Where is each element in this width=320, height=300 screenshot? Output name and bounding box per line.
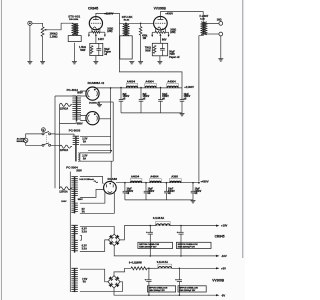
electrolytic C12 22000uF [175,268,182,295]
capacitor C8 10uF [191,183,196,200]
svg-text:oil: oil [162,99,165,101]
svg-text:RCA83: RCA83 [108,177,118,181]
filament rail A [80,88,111,153]
ground (STU-5K box) [129,62,134,64]
capacitor 50uF 700V (VV30B bias) [160,43,165,56]
svg-text:(2W): (2W) [170,31,175,34]
-10V rail [114,246,216,256]
wire hum pot wiper down (VV30B) [159,35,161,43]
svg-text:CR845: CR845 [215,234,225,238]
hum balance pot CR845 [92,31,100,33]
svg-text:5A: 5A [83,281,86,284]
wire jack to pot [32,23,43,27]
transformer STU-5K [123,23,129,35]
wire grid resistor to ground [140,35,142,61]
primary side rail (PC-3004) [69,172,71,293]
filament rail B [80,102,113,161]
page right border [242,0,244,258]
ground (VV30B bias) [157,62,162,64]
transformer PC-3004 HV secondary 350V [75,177,78,196]
chain2 cap tap dots [124,182,194,184]
arrow +10V [216,224,228,228]
wires STU-5K windings to box [125,34,126,37]
heater winding 6.3V no.1 [75,225,78,233]
grid resistor R2 470k [139,23,142,35]
svg-text:+5V: +5V [221,266,226,270]
label PC-3004 350V [66,166,82,173]
resistor 750ohm 50W [153,45,156,53]
wire 850V secondary top to rectifier [80,91,86,96]
output terminal 2 [219,32,223,36]
svg-text:-10V: -10V [221,254,227,258]
heater transformer core [73,225,76,292]
wiper arrow of VR1 [44,29,49,31]
svg-text:oil: oil [195,193,198,195]
capacitor C2 8uF [139,88,144,113]
AC plug P1 [24,138,28,142]
svg-text:A4004: A4004 [127,79,136,83]
svg-text:50W: 50W [80,49,86,52]
svg-text:850V: 850V [77,92,83,95]
rectifier tube RCA866A V1 [86,87,99,100]
wire HV sec bottom to RCA83 [80,189,104,197]
label STU-5K [122,15,134,21]
label 7.5V 5A [82,278,87,284]
svg-text:141V: 141V [98,37,104,41]
electrolytic C9 22000uF [146,226,153,256]
svg-text:125V2A: 125V2A [60,107,69,110]
svg-text:5A: 5A [83,157,86,160]
junction dot (CT line) [110,150,112,152]
wire bias network to ground [95,56,97,62]
choke L6 A395 [170,179,182,183]
svg-text:PC-5003: PC-5003 [69,128,81,132]
svg-text:350V: 350V [78,199,84,201]
capacitor C4 10uF [180,88,185,113]
svg-text:100-100k: 100-100k [69,19,79,21]
arrow -10V [216,254,227,258]
junction dots heater2 [148,268,180,297]
ground (pot) [40,62,45,64]
label 6.3V 3.5A (w2) [82,245,87,251]
junction dot (rail A top) [110,87,112,89]
svg-text:+1100V: +1100V [184,85,194,89]
label 1.5k 50W [79,46,86,52]
junction dot (STU-5K primary top) [125,23,127,25]
capacitor C5 10uF [123,183,128,200]
chain2 ground rail [125,199,193,201]
ground (STU-001 box) [72,62,77,64]
wire PC-3012 primary bottom return [60,121,77,124]
wiper arrow CR845 [95,33,97,36]
label 100ohm 2W (VV30B) [170,28,176,34]
svg-text:350V: 350V [76,169,82,172]
wire +1100V feed (long) [119,23,182,87]
fuse F3 [60,187,73,190]
wire hum pot wiper down [95,35,97,44]
page left border [0,0,2,300]
svg-text:0-B DC250mA: 0-B DC250mA [79,178,94,181]
wire filament CT to RCA83 [88,151,111,182]
filament supply stub left (to +5V) [151,32,155,37]
label 5V 3A [82,208,85,214]
bridge rectifier B2 [108,276,120,288]
svg-text:VV300B: VV300B [154,7,167,11]
svg-text:+1100V: +1100V [104,11,113,15]
choke L8 0.1H3.5A [158,264,172,268]
tiny fuse between rectifiers [97,102,102,107]
label C4 10uF 1500V oil [184,94,191,101]
svg-text:oil: oil [104,53,107,56]
choke L7 0.1H3.5A [156,221,171,225]
wire jack to ground [29,25,31,61]
AC rail right [51,105,60,189]
wire 5V winding top to bridge2 [80,269,108,282]
wire 5V sec to RCA83 filament [80,192,114,213]
wire secondary top to terminal [205,22,219,23]
svg-text:5A: 5A [83,140,86,143]
svg-text:3.5A: 3.5A [82,247,87,250]
wire w1 top to bridge1 [80,226,114,234]
filament supply stub left (to +10V) [88,32,92,37]
-5V rail [114,288,217,295]
+10V rail [170,225,217,227]
plate wire CR845 to +1100V rail [96,13,120,23]
plate wire VV30B to F-2007 [160,12,203,22]
svg-text:A4004: A4004 [145,79,154,83]
box under STU-001 [68,36,81,42]
svg-text:Paper oil: Paper oil [169,56,179,59]
svg-text:(2W): (2W) [107,30,112,33]
bridge rectifier B1 [108,234,120,246]
svg-text:STU-5K: STU-5K [122,15,134,19]
label C2 8uF 1500V oil [143,94,150,101]
svg-text:oil: oil [143,99,146,101]
wire V1 filament stub [98,101,113,103]
label C11 NIPPON CHEMI-CON [147,286,175,292]
svg-text:oil: oil [184,99,187,101]
label C7 10uF 1000V oil [168,189,175,196]
svg-text:0.1H3.5A: 0.1H3.5A [153,216,164,220]
label 6.3V 3.5A (w1) [82,228,87,234]
wire rail to PC-3012 primary top [55,95,76,97]
label 100ohm 2W (CR845) [107,28,113,34]
label 2.5V 5A (sec1) [82,138,87,144]
wire wiper to STU-001 [49,23,74,30]
capacitor C1 8uF [119,88,124,113]
wire terminal 2 to ground [220,36,222,59]
transformer PC-3004 primary [71,176,75,213]
svg-text:+10V: +10V [221,224,228,228]
wire secondary bottom to terminal [205,33,219,35]
wire plug to switch bottom [26,143,42,146]
label 50uF 700V Paper oil [169,51,179,59]
svg-text:0~0.2Ω60W: 0~0.2Ω60W [129,262,143,265]
output transformer F-2007 [201,22,207,35]
output terminal 1 [219,22,223,26]
fuse F1 [60,103,73,106]
chain2 bus [116,182,199,184]
HV bus from rectifier plates [96,87,182,89]
svg-text:VV300B: VV300B [212,279,225,283]
ground (input jack) [27,62,32,64]
svg-text:-5V: -5V [221,293,225,297]
junction dot (grid resistor top) [140,23,142,25]
tiny fuse (B line) [94,181,98,183]
label 50uF Paper oil [104,48,111,56]
ground (grid resistor) [138,62,143,64]
RC bias network VV30B (box) [152,43,167,56]
input jack J1 [28,21,32,25]
choke L5 A4004 [150,179,162,183]
svg-text:S: S [42,128,44,132]
ground (chain2) [191,201,196,203]
chain1 ground rail [121,112,182,114]
RC bias network CR845 (box) [90,43,103,55]
label C8 10uF 1000V oil [195,189,202,196]
svg-text:oil: oil [127,193,130,195]
svg-text:125V2A: 125V2A [59,191,68,194]
capacitor C7 10uF [164,183,169,200]
wire VV30B bias to ground [159,56,161,62]
wire pot to ground [42,36,44,61]
ground (CR845 bias) [93,62,98,64]
heater primary windings [71,225,74,291]
svg-text:KMH 22000µF 63V: KMH 22000µF 63V [139,247,157,249]
svg-text:100V: 100V [61,201,67,203]
svg-text:A395: A395 [171,174,178,178]
wiper arrow VV30B [159,33,161,36]
transformer STU-001 [72,23,78,34]
fuse F2 [60,145,73,148]
switch symbol S [42,128,46,132]
label C1 8uF 1500V oil [123,94,130,101]
rectifier tube RCA866A V2 [86,112,99,125]
svg-text:KMH 22000µF 25V: KMH 22000µF 25V [149,290,166,292]
svg-text:oil: oil [168,193,171,195]
label C6 10uF 1000V oil [148,189,155,196]
label PC-3012 850V [67,88,84,126]
AC rail left [51,96,55,188]
electrolytic C10 22000uF [177,226,184,256]
svg-text:oil: oil [123,99,126,101]
label AC100V 50/60Hz [17,137,26,143]
choke L3 A4004 [167,84,179,88]
ground (speaker) [218,59,223,61]
wire bridge1 plus to choke [120,226,156,240]
filament legs CR845 [92,29,100,32]
svg-text:1.2MΩ: 1.2MΩ [50,35,58,39]
label STU-001 [68,15,80,22]
svg-text:0.1H3.5A: 0.1H3.5A [157,260,168,264]
wires STU-001 windings to box [74,35,76,36]
choke L1 A4004 [126,84,138,88]
box under STU-5K [120,36,132,59]
wire rail to PC-5003 primary [55,134,74,136]
svg-text:50W: 50W [145,49,151,52]
svg-text:A4004: A4004 [131,174,140,178]
capacitor 50uF (CR845 bias) [96,43,101,55]
wire 850V secondary bottom to rectifier [80,116,86,121]
choke L2 A4004 [145,84,157,88]
ground (chain1) [180,114,185,116]
wire resistor to choke [147,267,158,269]
power switch S (top pole) [42,132,51,135]
wire plug to switch top [26,134,42,138]
arrow +5V [216,266,226,270]
label F-2007 [200,14,209,21]
svg-text:5k-8k: 5k-8k [124,19,130,21]
svg-text:8-16: 8-16 [200,19,205,21]
svg-text:850V: 850V [77,123,83,126]
wire HV sec top to RCA83 [80,176,104,183]
wire F-2007 primary bottom to +430V node [199,35,203,181]
arrow -5V [216,293,225,297]
label C3 10uF 1500V oil [162,94,169,101]
label 750ohm 50W [145,47,151,53]
+5V rail [172,267,217,269]
capacitor C3 10uF [158,88,163,113]
hum balance pot VV30B [155,31,165,33]
svg-text:3.5A: 3.5A [82,230,87,233]
triode CR845 U1 [89,17,102,30]
label 100k (1.2M) [50,32,58,39]
wire w2 bottom to bridge1 left [80,240,109,252]
filament supply stub right (to -10V) [100,32,106,37]
svg-text:A4004: A4004 [167,79,176,83]
label 470k 1W [142,35,148,41]
filter chain1 cap tap dots [120,87,161,89]
svg-text:STU-001: STU-001 [68,15,80,19]
triode VV30B U2 [154,16,168,30]
wire V2 filament stub [99,118,111,120]
svg-text:RCA866A ×2: RCA866A ×2 [88,81,105,85]
heater winding 6.3V no.2 [75,240,78,251]
resistor 1.5k 50W [90,46,93,54]
rectifier tube RCA83 V3 [104,181,117,194]
series link w1/w2 [80,235,82,240]
svg-text:+430V: +430V [165,11,173,15]
resistor 0-0.2ohm 60W [131,267,147,270]
filament legs VV30B [155,28,165,33]
svg-text:KMH 22000µF 25V: KMH 22000µF 25V [179,290,196,292]
potentiometer VR1 100k [41,27,44,37]
junction dot (+430V node) [198,182,200,184]
svg-text:50/60Hz: 50/60Hz [17,141,26,143]
label 2.5V 5A (sec2) [82,155,87,161]
transformer PC-3004 5V secondary [75,203,78,211]
svg-text:125V2A: 125V2A [60,149,69,152]
wire bridge2 plus to resistor [114,268,131,275]
svg-text:86V: 86V [162,37,167,41]
junction dots heater1 [150,225,182,257]
svg-text:F-2007: F-2007 [200,14,209,18]
svg-text:KMH 22000µF 63V: KMH 22000µF 63V [178,247,196,249]
transformer PC-3012 [72,96,81,121]
wire node A (B+ to interstage and grid) [119,22,153,24]
svg-text:oil: oil [148,193,151,195]
switch mechanical link [45,135,47,144]
choke L4 A4004 [130,179,142,183]
capacitor C6 10uF [144,183,149,200]
label C9 NIPPON CHEMI-CON [138,242,173,248]
label C10 NIPPON CHEMI-CON [176,242,211,248]
transformer PC-5003 [73,136,80,162]
svg-text:+430V: +430V [200,180,208,184]
electrolytic C11 22000uF [145,268,152,295]
heater winding 5V [75,268,78,291]
power switch S (bottom pole) [42,143,51,146]
wire STU-001 secondary to CR845 grid [76,24,78,35]
label C5 10uF 1000V oil [127,189,134,196]
wire 5V winding bottom to bridge2 [80,282,123,292]
label C12 NIPPON CHEMI-CON [178,286,206,292]
filament supply stub right (to -5V) [165,32,169,37]
svg-text:A4004: A4004 [150,174,159,178]
wire box to ground [73,43,75,62]
svg-text:CR845: CR845 [88,7,98,11]
